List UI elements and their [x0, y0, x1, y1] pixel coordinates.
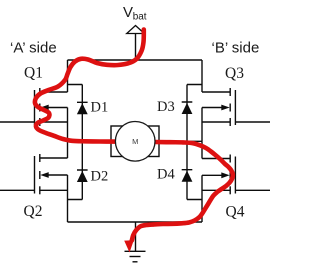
wire bottom ground rail [68, 221, 203, 223]
svg-text:‘B’ side: ‘B’ side [212, 40, 260, 57]
svg-text:Q2: Q2 [24, 203, 43, 220]
svg-text:Q1: Q1 [24, 65, 43, 82]
wire Q3 drain [201, 60, 203, 92]
wire Q2 source to ground rail [67, 175, 69, 222]
wire top rail [68, 59, 203, 61]
wire Q2 drain [67, 141, 69, 158]
motor M [115, 122, 155, 162]
wire current path highlight [35, 30, 233, 241]
ground [125, 222, 146, 262]
svg-text:V: V [123, 4, 133, 21]
wire motor right to node B [159, 140, 202, 142]
svg-text:D3: D3 [157, 99, 175, 115]
svg-text:Q4: Q4 [226, 204, 245, 221]
svg-text:D4: D4 [157, 167, 175, 183]
transistor Q2 [0, 154, 68, 194]
supply arrow Vbat [127, 26, 145, 34]
diode D1 [68, 85, 88, 142]
svg-text:D2: D2 [91, 169, 109, 185]
diode D4 [182, 141, 202, 199]
wire Q3 source to node B [201, 108, 203, 142]
svg-text:D1: D1 [91, 100, 109, 116]
svg-text:Q3: Q3 [225, 65, 244, 82]
diode D2 [68, 141, 88, 199]
transistor Q3 [202, 88, 270, 126]
current arrowhead into ground [124, 240, 134, 252]
motor terminal block [111, 126, 159, 157]
wire Q1 source to node A [67, 108, 69, 142]
Vbat supply stem [135, 34, 137, 61]
wire Q1 drain [67, 60, 69, 92]
wire node A to motor left [68, 140, 112, 142]
svg-text:‘A’ side: ‘A’ side [10, 40, 57, 57]
wire Q4 drain [201, 141, 203, 158]
transistor Q4 [202, 155, 270, 195]
transistor Q1 [0, 88, 68, 126]
wire Q4 source to ground rail [201, 175, 203, 222]
svg-text:bat: bat [133, 11, 147, 22]
svg-text:M: M [132, 137, 138, 146]
diode D3 [182, 85, 202, 142]
